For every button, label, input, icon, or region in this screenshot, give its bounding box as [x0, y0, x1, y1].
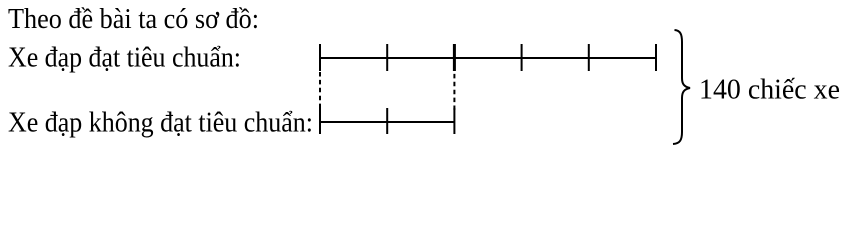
top bar line — [320, 57, 656, 59]
top bar tick 2 — [386, 44, 388, 71]
dashed connector left — [319, 72, 321, 109]
bottom bar tick 3 — [453, 108, 455, 134]
top bar tick 6 — [655, 44, 657, 71]
svg-text:140 chiếc xe: 140 chiếc xe — [699, 74, 840, 106]
dashed connector right — [453, 66, 455, 110]
top bar tick 5 — [588, 44, 590, 71]
top bar tick 1 — [319, 44, 321, 71]
svg-text:Xe đạp không đạt tiêu chuẩn:: Xe đạp không đạt tiêu chuẩn: — [8, 107, 313, 139]
top bar tick 4 — [521, 44, 523, 71]
svg-text:Theo đề bài ta có sơ đồ:: Theo đề bài ta có sơ đồ: — [8, 3, 259, 35]
bottom bar tick 2 — [386, 108, 388, 134]
bottom bar tick 1 — [319, 108, 321, 134]
right curly brace — [673, 30, 690, 144]
top bar tick 3 — [453, 44, 456, 71]
svg-text:Xe đạp đạt tiêu chuẩn:: Xe đạp đạt tiêu chuẩn: — [8, 41, 241, 73]
bottom bar line — [320, 121, 454, 123]
